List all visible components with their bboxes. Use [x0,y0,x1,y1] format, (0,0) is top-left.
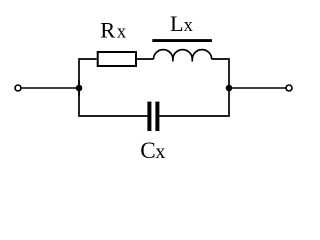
wire node A up to resistor (top-left corner) [79,59,97,96]
wire resistor to inductor [137,58,154,60]
wire node A down to capacitor (bottom-left corner) [79,80,147,116]
wire inductor to node B (top-right corner, down to bottom branch) [159,59,229,116]
wire T1 to node A [22,87,79,89]
inductor Lx (3-loop coil) [154,50,212,62]
label Rx [100,18,127,43]
svg-text:Lx: Lx [170,11,194,36]
node B (right junction dot) [226,85,233,92]
label Lx [170,11,194,36]
svg-text:Cx: Cx [140,138,165,164]
terminal T2 (right open circle) [286,85,292,91]
inductor core bar [152,39,212,42]
terminal T1 (left open circle) [15,85,21,91]
label Cx [140,138,165,164]
wire node B to terminal T2 [229,87,285,89]
resistor Rx (rectangle body) [98,52,136,66]
capacitor Cx right plate [155,102,159,131]
capacitor Cx left plate [147,102,151,131]
node A (left junction dot) [76,85,83,92]
svg-text:Rx: Rx [100,18,127,43]
